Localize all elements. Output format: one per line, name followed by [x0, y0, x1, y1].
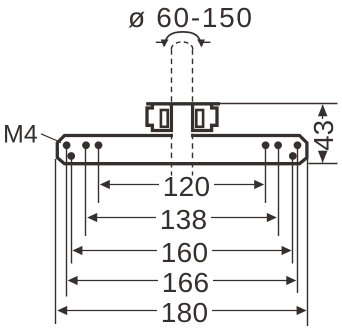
ext 120 left — [98, 145, 100, 203]
svg-text:166: 166 — [162, 267, 210, 298]
dimension 120 — [100, 171, 264, 202]
dimension 43 (vertical, right side) — [308, 104, 339, 162]
diameter dimension arc — [164, 32, 201, 46]
arc right arrowhead — [197, 40, 205, 48]
dimension 160 — [72, 237, 291, 268]
bar hole dots — [63, 141, 302, 160]
dimension 180 — [57, 297, 306, 328]
ext 120 right — [265, 145, 267, 203]
svg-text:180: 180 — [161, 297, 209, 328]
43 bottom extension line — [309, 163, 338, 165]
43 top extension line — [220, 103, 338, 105]
M4 leader line — [41, 134, 61, 143]
left clamp piece — [147, 103, 171, 131]
pole hidden outline (dashed arc + sides) — [171, 42, 193, 176]
ext 180 right — [307, 159, 309, 326]
svg-text:120: 120 — [163, 171, 211, 202]
ext 166 left — [66, 145, 68, 296]
dimension 166 — [68, 267, 297, 298]
svg-text:43: 43 — [308, 120, 339, 151]
mounting bar outline (top edge broken between clamp walls) — [57, 136, 307, 164]
ext 138 right — [278, 145, 280, 236]
svg-text:M4: M4 — [3, 121, 38, 149]
left clamp slot hole — [161, 110, 168, 127]
arc right tick — [202, 41, 211, 43]
ext 160 right — [292, 156, 294, 264]
right clamp piece — [193, 103, 217, 131]
arc left arrowhead — [161, 40, 169, 48]
extension lines — [56, 145, 338, 326]
right clamp slot hole — [196, 110, 203, 127]
ext 166 right — [297, 145, 299, 293]
svg-text:138: 138 — [160, 204, 208, 235]
arc left tick — [156, 41, 164, 43]
ext 180 left — [55, 159, 57, 324]
ext 160 left — [71, 156, 73, 264]
svg-text:160: 160 — [161, 237, 209, 268]
clamp top plate (thick line) — [146, 102, 220, 105]
ext 138 left — [85, 145, 87, 236]
svg-text:ø 60-150: ø 60-150 — [128, 2, 254, 33]
dimension 138 — [87, 204, 277, 235]
